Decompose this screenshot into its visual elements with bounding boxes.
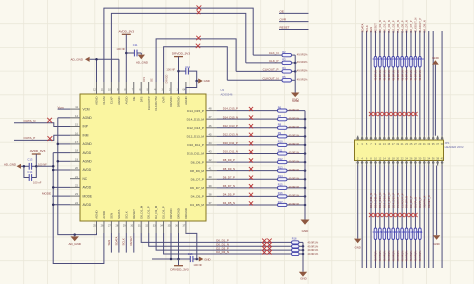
designator R40 — [399, 230, 404, 234]
JP1 pin pair 25/26 — [410, 136, 413, 166]
wire header bottom pin 10 — [374, 166, 376, 269]
resistor R7 — [278, 114, 288, 121]
svg-text:D8_D9_N: D8_D9_N — [223, 167, 235, 171]
svg-text:CLKOUTM: CLKOUTM — [154, 96, 158, 111]
svg-text:CLKOUT_P: CLKOUT_P — [263, 68, 279, 72]
net label D6_D7_N (header top) — [405, 20, 409, 32]
svg-text:AD_GND: AD_GND — [4, 162, 16, 166]
net label D8_D9_P (header bottom) — [409, 196, 413, 208]
ground AD_GND (bottom left) — [68, 233, 81, 246]
wire header top pin 5 — [366, 31, 368, 136]
svg-text:44: 44 — [209, 141, 212, 145]
wire header bottom pin 16 — [388, 166, 390, 269]
no-ERC markers D0_D1_P — [262, 239, 272, 243]
IC U3 ADS5546 body — [80, 94, 206, 221]
wire AVDD_3V3 down to node — [35, 159, 37, 167]
svg-text:INM: INM — [83, 133, 89, 137]
svg-text:100 NF: 100 NF — [116, 47, 125, 51]
svg-text:AGND: AGND — [83, 142, 93, 146]
svg-text:49.9R1%: 49.9R1% — [297, 60, 308, 64]
no-ERC marker below header — [382, 213, 386, 217]
wire header top pin 11 — [379, 31, 381, 136]
resistor R21 — [292, 252, 300, 255]
net label OE — [280, 9, 284, 13]
wire CLK_N row — [253, 54, 282, 56]
value of R42 — [409, 250, 413, 262]
U3 top pin 9 AGND — [117, 82, 121, 105]
U3 left pin 20 AVDD — [70, 166, 92, 172]
wire R3 to GND rail — [292, 62, 296, 64]
wire R11 to rail — [287, 153, 305, 155]
JP1 pin pair 21/22 — [401, 136, 404, 166]
resistor R31 — [414, 57, 417, 68]
wire R7 to rail — [287, 118, 305, 120]
wire R20 to rail — [299, 249, 303, 251]
resistor R5 — [282, 75, 292, 82]
no-ERC marker above header — [369, 112, 373, 116]
wire pin37 to bottom node — [186, 233, 197, 259]
svg-text:D12_D13_N: D12_D13_N — [223, 132, 238, 136]
wire R13 to rail — [287, 170, 305, 172]
designator R25 — [386, 57, 391, 61]
net label D10_D11_N — [223, 150, 238, 154]
wire AGND rail left — [58, 118, 97, 235]
resistor R19 — [292, 245, 300, 248]
wire AVDD_3V3 to pin AVDD — [125, 38, 127, 82]
wire header bottom pin 36 — [432, 166, 434, 269]
resistor R26 — [392, 57, 395, 68]
junction cluster to rail — [52, 165, 55, 168]
JP1 pin pair 3/4 — [361, 136, 363, 166]
no-ERC marker above header — [382, 112, 386, 116]
U3 top pin 12 AGND — [93, 82, 98, 105]
svg-text:DRVDD: DRVDD — [166, 74, 169, 83]
wire D4_D5_P row — [217, 195, 278, 197]
value 100 NF of C11 — [116, 47, 125, 51]
no-ERC marker D8_D9_N — [249, 167, 253, 171]
U3 right pin 39 D6_D7_M — [190, 184, 217, 190]
resistor R41 — [405, 228, 408, 240]
svg-text:38: 38 — [209, 192, 212, 196]
svg-text:49.9R1%: 49.9R1% — [289, 125, 300, 129]
junction pin20 rail — [52, 169, 55, 172]
power port AVDD_3V3 (left) — [30, 149, 46, 158]
JP1 pin pair 37/38 — [436, 136, 439, 166]
no-ERC marker below header — [404, 213, 408, 217]
ground GND (CLK rail) — [291, 93, 299, 102]
value of R41 — [405, 250, 409, 262]
svg-text:D12_D13_P: D12_D13_P — [187, 126, 204, 130]
wire header bottom pin 34 — [428, 166, 430, 269]
svg-text:22: 22 — [75, 184, 78, 188]
U3 left pin 16 INM — [70, 131, 89, 137]
resistor R43 — [414, 228, 417, 240]
value 49.9R1% of R19 — [308, 244, 319, 248]
wire CLK GND rail — [294, 55, 296, 92]
svg-text:49.9R1%: 49.9R1% — [289, 151, 300, 155]
svg-text:OUTA_P: OUTA_P — [418, 197, 422, 208]
svg-text:49.9R1%: 49.9R1% — [374, 69, 378, 81]
U3 bottom pin 36 DRGND — [175, 208, 180, 233]
wire D8_D9_P row — [217, 161, 278, 163]
designator R29 — [404, 57, 409, 61]
JP1 pin pair 35/36 — [432, 136, 435, 166]
no-ERC marker below header — [400, 213, 404, 217]
JP1 comment HEADER 20X2 — [445, 145, 464, 149]
junction pin19 rail — [57, 160, 60, 163]
junction R19 rail — [302, 245, 305, 248]
wire header bottom pin 6 — [366, 166, 368, 269]
svg-text:D4_D5_P: D4_D5_P — [400, 20, 404, 32]
wire Vcm to pin 11 — [58, 108, 70, 110]
wire OVR to CLKOUT_N row — [164, 47, 228, 82]
junction AGND pin1 wire — [95, 58, 98, 61]
svg-text:49.9R1%: 49.9R1% — [383, 250, 387, 262]
wire R10 to rail — [287, 144, 305, 146]
svg-text:CLK_N: CLK_N — [269, 51, 279, 55]
svg-text:49.9R1%: 49.9R1% — [387, 250, 391, 262]
JP1 pin pair 19/20 — [396, 136, 399, 166]
no-ERC marker D14_D15_P — [249, 107, 253, 111]
no-ERC marker below header — [378, 213, 382, 217]
U3 bottom pin 25 AGND — [93, 210, 98, 233]
svg-text:49.9R1%: 49.9R1% — [396, 69, 400, 81]
JP1 pin pair 27/28 — [414, 136, 417, 166]
net label D4_D5_N (header top) — [396, 20, 400, 32]
svg-text:14: 14 — [75, 114, 78, 118]
svg-text:49.9R1%: 49.9R1% — [297, 52, 308, 56]
designator R18 stack — [292, 237, 297, 240]
svg-text:18: 18 — [75, 149, 78, 153]
net label RESET_X (header bottom) — [427, 195, 431, 208]
svg-text:20: 20 — [75, 166, 78, 170]
svg-text:DRVDD: DRVDD — [169, 97, 173, 107]
designator R36 — [382, 230, 387, 234]
wire header bottom pin 40 — [441, 166, 443, 269]
net label SCLK (header top) — [365, 25, 369, 32]
wire R14 to rail — [287, 178, 305, 180]
junction pin36 node — [177, 258, 180, 261]
svg-text:C13: C13 — [188, 252, 193, 256]
no-ERC marker below header — [373, 213, 377, 217]
svg-text:D12_D13_P: D12_D13_P — [223, 124, 238, 128]
wire header top pin 3 — [361, 31, 363, 136]
JP1 pin pair 17/18 — [392, 136, 395, 166]
net label D6_D7_N — [223, 184, 235, 188]
U3 top pin 64 AGND — [183, 82, 188, 105]
wire OUTA_N — [14, 123, 70, 127]
designator R39 — [395, 230, 400, 234]
value 49.9R1% of R9 — [289, 134, 300, 138]
wire AVDD rail left — [53, 153, 104, 264]
U3 top pin 10 CLKP — [108, 82, 113, 104]
svg-text:D0_D1_M: D0_D1_M — [139, 205, 143, 219]
value of R23 — [378, 69, 382, 81]
svg-text:R33: R33 — [420, 57, 425, 61]
ground GND (bottom cluster) — [197, 257, 211, 262]
net label CLK_P — [269, 59, 279, 63]
svg-text:SCLK: SCLK — [365, 25, 369, 32]
value of R32 — [418, 69, 422, 81]
svg-text:D14_D15_M: D14_D15_M — [187, 117, 205, 121]
net label OUTA_N — [24, 119, 36, 123]
capacitor C14 (left) — [27, 170, 32, 181]
svg-text:100 NF: 100 NF — [193, 263, 202, 267]
wire D6_D7_P row — [217, 178, 278, 180]
svg-text:JP1: JP1 — [445, 141, 450, 145]
no-ERC marker D10_D11_P — [249, 141, 253, 145]
value of R28 — [400, 69, 404, 81]
value of R30 — [409, 69, 413, 81]
svg-text:49.9R1%: 49.9R1% — [414, 250, 418, 262]
U3 right pin 40 D6_D7_P — [191, 175, 217, 181]
svg-text:D4_D5_N: D4_D5_N — [223, 201, 235, 205]
svg-text:MODE: MODE — [42, 192, 51, 196]
value 100 NF of C13 — [38, 162, 47, 166]
designator R26 — [390, 57, 395, 61]
svg-text:D8_D9_P: D8_D9_P — [409, 196, 413, 208]
net label D2_D3_P (header top) — [391, 20, 395, 32]
wire pin35 DRVDD down — [170, 233, 172, 259]
U3 top pin 2 DRVDD — [169, 82, 173, 107]
JP1 designator — [445, 141, 450, 145]
wire header top pin 29 — [419, 31, 421, 136]
U3 bottom pin 35 DRVDD — [168, 209, 173, 233]
JP1 pin pair 1/2 — [357, 136, 359, 166]
net label D4_D5_N — [223, 201, 235, 205]
svg-text:DRGND: DRGND — [177, 208, 181, 219]
value 49.9R1% of R12 — [289, 159, 300, 163]
value of R22 — [374, 69, 378, 81]
svg-text:37: 37 — [209, 201, 212, 205]
svg-text:SEN: SEN — [110, 213, 114, 219]
wire header top pin 9 — [374, 31, 376, 136]
net label D2_D3_N (header top) — [387, 20, 391, 32]
wire tap to C12 — [179, 70, 186, 72]
svg-text:D2_D3_P: D2_D3_P — [391, 20, 395, 32]
svg-text:SEN: SEN — [369, 27, 373, 33]
wire pin19 to AGND rail — [58, 160, 70, 162]
value of R24 — [383, 69, 387, 81]
svg-text:D12_D13_N: D12_D13_N — [378, 193, 382, 208]
net label D6_D7_P (header top) — [409, 20, 413, 32]
net label D10_D11_P (header bottom) — [374, 193, 378, 208]
net label MODE — [42, 192, 51, 196]
designator R32 — [417, 57, 422, 61]
wire bottom GND rail — [302, 242, 304, 271]
ground AD_GND (left cluster) — [4, 162, 21, 168]
U3 bottom pin 28 SDATA — [115, 210, 120, 233]
net label D4_D5_P — [223, 193, 235, 197]
svg-text:AD_GND: AD_GND — [136, 60, 148, 64]
svg-text:45: 45 — [209, 132, 212, 136]
no-ERC marker below header — [391, 213, 395, 217]
net label OUTA_P (header bottom) — [418, 197, 422, 208]
junction GND node — [195, 80, 198, 83]
resistor R29 — [405, 57, 408, 68]
svg-text:49.9R1%: 49.9R1% — [391, 69, 395, 81]
net label D0_D1_N (header top) — [378, 20, 382, 32]
svg-text:GND: GND — [355, 245, 361, 249]
svg-text:D12_D13_M: D12_D13_M — [187, 135, 205, 139]
wire header bottom pin 24 — [406, 166, 408, 269]
JP1 pin pair 29/30 — [418, 136, 421, 166]
U3 left pin 21 NC — [70, 175, 88, 181]
wire header top pin 13 — [383, 31, 385, 136]
svg-text:RESET: RESET — [132, 209, 136, 219]
svg-text:49.9R1%: 49.9R1% — [418, 69, 422, 81]
resistor R39 — [396, 228, 399, 240]
svg-text:AVDD: AVDD — [124, 96, 128, 104]
svg-text:AVDD: AVDD — [83, 168, 92, 172]
U3 left pin 17 AGND — [70, 140, 92, 146]
svg-text:15: 15 — [75, 123, 78, 127]
net label OUTA_N (header bottom) — [414, 197, 418, 208]
U3 bottom pin 33 D2_D3_M — [153, 205, 158, 233]
resistor R16 — [278, 191, 288, 198]
svg-text:SCLK: SCLK — [124, 211, 128, 219]
U3 top pin 3 OVR — [162, 82, 166, 103]
U3 right pin 47 D14_D15_M — [187, 115, 217, 121]
resistor R38 — [392, 228, 395, 240]
wire MODE to pin 23 — [52, 195, 70, 197]
svg-text:D8_D9_N: D8_D9_N — [423, 20, 427, 32]
net label RESET (header top) — [374, 23, 378, 33]
svg-text:49.9R1%: 49.9R1% — [414, 69, 418, 81]
net label OVR — [280, 18, 287, 22]
designator R24 — [382, 57, 387, 61]
value 49.9R1% of R4 — [297, 69, 308, 73]
resistor R40 — [401, 228, 404, 240]
no-ERC marker D6_D7_P — [249, 176, 253, 180]
net label DRVDD rotated — [166, 74, 169, 83]
svg-text:OE: OE — [132, 96, 136, 100]
svg-text:AD_GND: AD_GND — [70, 57, 83, 61]
JP1 pin pair 23/24 — [405, 136, 408, 166]
no-ERC marker above header — [396, 112, 400, 116]
svg-text:49.9R1%: 49.9R1% — [289, 108, 300, 112]
net label D2_D3_P — [216, 246, 229, 250]
wire header bottom pin 28 — [414, 166, 416, 269]
resistor R30 — [410, 57, 413, 68]
net label D14_D15_N (header bottom) — [387, 193, 391, 208]
net label D8_D9_N (header bottom) — [405, 196, 409, 208]
value 49.9R1% of R14 — [289, 176, 300, 180]
wire C14 loop — [24, 166, 36, 177]
wire SEN stub down — [110, 233, 112, 253]
svg-text:C11: C11 — [133, 43, 138, 47]
svg-text:49.9R1%: 49.9R1% — [396, 250, 400, 262]
svg-text:D6_D7_N: D6_D7_N — [405, 20, 409, 32]
svg-text:C13: C13 — [27, 158, 32, 162]
wire header pin1 to GND — [357, 166, 359, 239]
junction pin35 node — [170, 258, 173, 261]
svg-text:CLKM: CLKM — [102, 96, 106, 105]
junction R9 rail — [304, 135, 307, 138]
wire D2_D3_N route — [164, 233, 292, 254]
resistor R37 — [387, 228, 390, 240]
svg-text:D0_D1_P: D0_D1_P — [383, 20, 387, 32]
svg-text:RESET: RESET — [129, 236, 133, 246]
net label SEN rotated — [107, 240, 111, 246]
designator R37 — [386, 230, 391, 234]
wire RESET stub down — [133, 233, 135, 253]
net label D14_D15_P (header bottom) — [391, 193, 395, 208]
no-ERC marker CLKOUTP wire — [196, 36, 200, 40]
svg-text:D10_D11_M: D10_D11_M — [187, 152, 205, 156]
svg-text:D10_D11_P: D10_D11_P — [187, 143, 204, 147]
svg-text:AGND: AGND — [83, 116, 93, 120]
U3 bottom pin 30 RESET — [130, 209, 135, 233]
value of R37 — [387, 250, 391, 262]
value 49.9R1% of R5 — [297, 78, 308, 82]
svg-text:42: 42 — [209, 158, 212, 162]
net label CLKOUT_N (header top) — [414, 18, 418, 33]
svg-text:D14_D15_P: D14_D15_P — [391, 193, 395, 208]
wire R12 to rail — [287, 161, 305, 163]
wire D14_D15_N row — [217, 118, 278, 120]
svg-text:D2_D3_N: D2_D3_N — [216, 250, 229, 254]
no-ERC marker D4_D5_P — [249, 193, 253, 197]
U3 designator — [221, 88, 225, 92]
ground GND (C12) — [197, 79, 210, 84]
svg-text:D10_D11_N: D10_D11_N — [223, 150, 238, 154]
net label D0_D1_P — [216, 239, 229, 243]
svg-text:HEADER 20X2: HEADER 20X2 — [445, 145, 464, 149]
U3 left pin 19 AGND — [70, 157, 92, 163]
value 100 NF of C12 — [166, 68, 175, 72]
junction R17 rail — [304, 204, 307, 207]
svg-text:17: 17 — [75, 140, 78, 144]
svg-text:49.9R1%: 49.9R1% — [289, 142, 300, 146]
svg-text:24: 24 — [75, 201, 78, 205]
svg-text:D8_D9_N: D8_D9_N — [405, 196, 409, 208]
resistor R34 — [374, 228, 377, 240]
value of R26 — [391, 69, 395, 81]
designator R27 — [395, 57, 400, 61]
net label D6_D7_P — [223, 175, 235, 179]
resistor R12 — [278, 157, 288, 164]
wire header top pin 7 — [370, 31, 372, 136]
svg-text:16: 16 — [75, 131, 78, 135]
svg-text:D4_D5_M: D4_D5_M — [190, 203, 204, 207]
junction R11 rail — [304, 152, 307, 155]
svg-text:D2_D3_M: D2_D3_M — [154, 205, 158, 219]
JP1 pin pair 33/34 — [427, 136, 430, 166]
svg-text:D6_D7_P: D6_D7_P — [409, 20, 413, 32]
svg-text:AGND: AGND — [95, 210, 99, 218]
U3 left pin 14 AGND — [70, 114, 92, 120]
svg-text:23: 23 — [75, 192, 78, 196]
capacitor C13 (left) — [27, 158, 32, 170]
value of R44 — [418, 250, 422, 262]
junction R8 rail — [304, 127, 307, 130]
net label D10_D11_P — [223, 141, 238, 145]
value of R38 — [391, 250, 395, 262]
designator R30 — [408, 57, 413, 61]
wire header top pin 31 — [423, 31, 425, 136]
value 49.9R1% of R6 — [289, 108, 300, 112]
resistor R23 — [379, 57, 382, 68]
no-ERC marker on OUTA_P — [48, 136, 53, 141]
svg-text:AGND: AGND — [184, 97, 188, 105]
wire header top pin 33 — [428, 31, 430, 136]
wire header top pin 39 — [441, 31, 443, 136]
U3 right pin 42 D8_D9_P — [191, 158, 217, 164]
resistor R36 — [383, 228, 386, 240]
wire pin17 to AGND rail — [58, 143, 70, 145]
value 100 nF of C14 — [33, 180, 42, 184]
